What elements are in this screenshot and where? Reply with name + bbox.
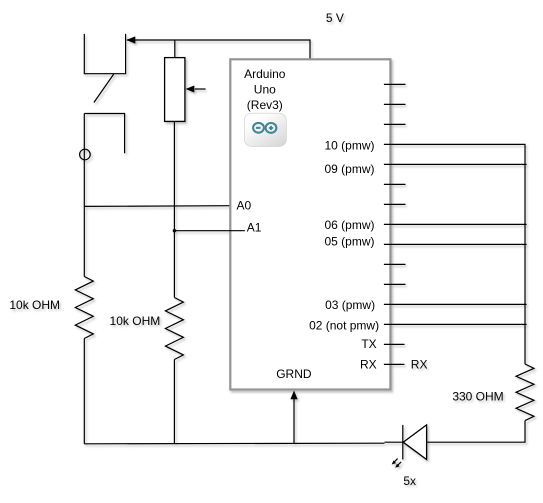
logo infinity left ring [253,123,264,133]
LED D1 light arrow 1 [394,459,398,463]
wire pin 10 to LED bus [384,144,525,364]
logo plus [269,126,273,130]
pin tick unlabeled 5 [384,203,406,205]
svg-text:02 (not pmw): 02 (not pmw) [309,319,379,333]
wire pin 05 [384,243,527,245]
svg-text:A1: A1 [247,221,262,235]
wire node A0 to Arduino [84,205,230,208]
pin tick unlabeled 2 [384,103,406,105]
svg-text:TX: TX [361,337,376,351]
logo Arduino badge [244,113,286,146]
wire pin 02 [384,323,527,325]
logo minus [256,127,261,129]
svg-text:06 (pmw): 06 (pmw) [324,218,374,232]
svg-text:03 (pmw): 03 (pmw) [325,298,375,312]
potentiometer body [165,58,185,122]
wire pin 03 [384,303,527,305]
wire 5V net [127,40,310,59]
wire pin 06 [384,223,527,225]
pin tick unlabeled 4 [384,183,406,185]
LED D1 cathode bar [402,425,404,460]
wire pot top lead [174,40,176,58]
logo infinity right ring [266,123,277,133]
wire R3 bottom to LED anode [427,421,525,443]
junction A1 [173,229,176,232]
svg-text:A0: A0 [237,199,252,213]
svg-text:RX: RX [411,357,428,371]
wire pot bottom lead down to R2 [173,121,175,297]
svg-text:330 OHM: 330 OHM [452,390,503,404]
svg-text:5x: 5x [403,474,416,488]
svg-text:Uno: Uno [254,82,276,96]
ground arrow GRND [293,399,295,444]
svg-text:10k OHM: 10k OHM [9,298,60,312]
pin tick unlabeled 7 [384,283,406,285]
resistor R1 10k OHM zigzag [75,277,93,339]
op board U1 Arduino Uno box [230,59,390,389]
switch S1 terminal circle [80,149,91,160]
pin tick TX [384,343,405,345]
wire LED cathode lead [385,441,403,443]
wire node A1 to Arduino [174,230,245,232]
wire R1 bottom lead [83,339,85,444]
pin tick unlabeled 1 [384,83,406,85]
svg-text:Arduino: Arduino [244,67,286,81]
switch S1 bottom contact [84,114,124,154]
svg-text:05 (pmw): 05 (pmw) [324,235,374,249]
svg-text:(Rev3): (Rev3) [247,98,283,112]
switch S1 top contact [84,34,125,74]
svg-text:10k OHM: 10k OHM [110,314,161,328]
potentiometer wiper arrow [195,88,206,90]
LED D1 triangle [403,425,426,460]
wire pin 09 [384,163,527,165]
pin tick RX [384,363,405,365]
wire R2 bottom lead [173,360,175,444]
svg-text:09 (pmw): 09 (pmw) [324,162,374,176]
pin tick unlabeled 3 [384,123,406,125]
wire switch left leg down to R1 [83,114,85,277]
svg-text:10 (pmw): 10 (pmw) [324,139,374,153]
switch S1 lever [94,74,114,102]
svg-text:GRND: GRND [276,367,312,381]
svg-text:5 V: 5 V [326,11,344,25]
resistor R3 330 OHM zigzag [516,364,534,421]
LED D1 light arrow 2 [398,462,402,466]
svg-text:RX: RX [360,357,377,371]
pin tick unlabeled 6 [384,263,406,265]
arrowhead 5V into switch [126,36,135,43]
resistor R2 10k OHM zigzag [165,298,183,360]
wire ground bus bottom [84,442,384,445]
